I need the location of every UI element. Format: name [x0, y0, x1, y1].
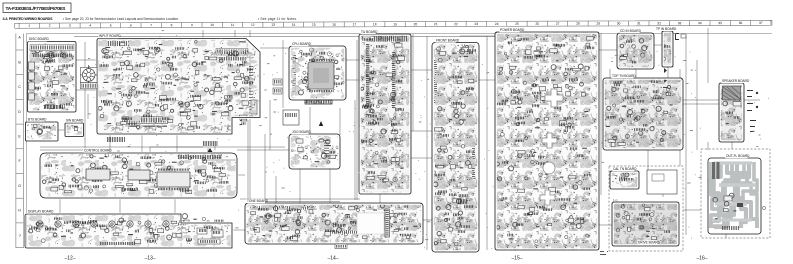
- svg-text:11: 11: [231, 23, 235, 27]
- rotary encoder mounting box: [80, 67, 97, 82]
- svg-text:18: 18: [373, 22, 377, 26]
- IC901 system control on CPU board: [308, 59, 334, 92]
- svg-text:3-3. PRINTED WIRING BOARDS: 3-3. PRINTED WIRING BOARDS: [3, 17, 54, 21]
- board: DISC BOARD: [28, 37, 77, 112]
- svg-text:DISC BOARD: DISC BOARD: [29, 37, 50, 41]
- page fold markers: [64, 256, 707, 262]
- transformer block on SPEAKER board: [723, 86, 741, 100]
- svg-text:DISPLAY BOARD: DISPLAY BOARD: [28, 210, 54, 214]
- svg-text:G: G: [18, 184, 21, 188]
- board: CTRL (CPU) BOARD: [289, 42, 346, 100]
- svg-text:12: 12: [251, 23, 255, 27]
- svg-text:D: D: [18, 110, 21, 114]
- svg-text:19: 19: [393, 22, 397, 26]
- connector columns on TU board: [366, 44, 395, 108]
- board: TOP TN BOARD: [603, 74, 683, 150]
- svg-text:17: 17: [353, 22, 357, 26]
- tall connector on TONE board: [385, 209, 390, 237]
- svg-text:C: C: [18, 85, 21, 89]
- svg-text:TP IN BOARD: TP IN BOARD: [656, 27, 677, 31]
- terminal circle at OUT-FL enclosure: [755, 206, 766, 209]
- svg-text:31: 31: [637, 21, 641, 25]
- dashed enclosure: OUT-FL unit: [701, 149, 770, 238]
- svg-text:OUT-FL BOARD: OUT-FL BOARD: [726, 154, 750, 158]
- component row top of TONE board: [255, 206, 377, 234]
- board: CD IN BOARD: [617, 29, 654, 69]
- svg-text:15: 15: [312, 23, 316, 27]
- svg-text:28: 28: [576, 22, 580, 26]
- arrow marker below CPU board: [319, 121, 323, 126]
- board: TP IN BOARD: [655, 27, 677, 67]
- svg-text:4: 4: [89, 24, 91, 28]
- svg-text:• See page 20, 23 for Semicond: • See page 20, 23 for Semiconductor Lead…: [63, 17, 179, 21]
- svg-text:FRONT BOARD: FRONT BOARD: [436, 39, 460, 43]
- svg-text:7: 7: [150, 23, 152, 27]
- board: INPUT BOARD: [97, 34, 260, 134]
- svg-text:TU BOARD: TU BOARD: [361, 30, 378, 34]
- connector below INPUT board: [107, 137, 125, 142]
- ruler: numbered column grid: [15, 20, 772, 28]
- svg-text:26: 26: [536, 22, 540, 26]
- svg-text:–16–: –16–: [696, 256, 707, 262]
- svg-text:–13–: –13–: [144, 256, 155, 262]
- connector boxes at right of DISPLAY board: [197, 228, 223, 244]
- svg-text:10: 10: [210, 23, 214, 27]
- polarity symbols beside TP IN board: [663, 33, 686, 93]
- svg-text:–15–: –15–: [511, 256, 522, 262]
- IC501 and IC502 on CONTROL board: [86, 155, 221, 190]
- svg-text:27: 27: [556, 22, 560, 26]
- svg-text:SPEAKER BOARD: SPEAKER BOARD: [722, 79, 750, 83]
- connector comb bottom of INPUT board: [123, 117, 168, 124]
- svg-text:–14–: –14–: [327, 256, 338, 262]
- svg-text:2: 2: [49, 24, 51, 28]
- board: BTS BOARD: [26, 117, 59, 141]
- connector plugs left of CPU board: [273, 79, 282, 94]
- board: CAL TN BOARD: [610, 167, 639, 189]
- svg-text:TOP TN BOARD: TOP TN BOARD: [612, 74, 636, 78]
- svg-text:CAL TN BOARD: CAL TN BOARD: [613, 167, 637, 171]
- connector comb bottom of DISC board: [44, 105, 63, 109]
- svg-text:[ • ]: [ • ]: [613, 198, 618, 202]
- svg-text:6: 6: [130, 23, 132, 27]
- dashed enclosure: tuner drive unit: [609, 166, 683, 251]
- pin column left edge of CPU board: [293, 55, 296, 92]
- tick columns on FRONT board edges: [434, 60, 475, 179]
- scale legend box under encoder: [80, 83, 97, 89]
- svg-text:BTS BOARD: BTS BOARD: [28, 118, 47, 122]
- svg-text:CPU BOARD: CPU BOARD: [292, 42, 312, 46]
- svg-text:1: 1: [28, 24, 30, 28]
- svg-text:JOG BOARD: JOG BOARD: [292, 130, 311, 134]
- board: SW BOARD: [65, 118, 84, 136]
- svg-text:CD IN BOARD: CD IN BOARD: [620, 29, 642, 33]
- svg-text:• See page 11 for Notes.: • See page 11 for Notes.: [258, 17, 297, 21]
- svg-text:H: H: [18, 209, 21, 213]
- board: DRIVE BOARD: [612, 202, 679, 246]
- board: TONE BOARD: [245, 199, 423, 244]
- board: FRONT BOARD: [432, 38, 479, 252]
- component column right edge of INPUT board: [249, 66, 257, 116]
- svg-text:CONTROL BOARD: CONTROL BOARD: [84, 149, 112, 153]
- svg-text:25: 25: [515, 22, 519, 26]
- svg-text:22: 22: [454, 22, 458, 26]
- svg-text:36: 36: [739, 21, 743, 25]
- svg-text:16: 16: [332, 23, 336, 27]
- svg-text:3: 3: [69, 24, 71, 28]
- terminal symbols right margin: [747, 90, 758, 132]
- heat sink pads on POWER board: [540, 89, 563, 205]
- svg-text:29: 29: [597, 22, 601, 26]
- connector CN101 pin rows on DISC board: [30, 45, 74, 58]
- symbols below POWER board: [600, 251, 608, 255]
- frame: content border: [26, 34, 772, 249]
- board: CONTROL BOARD: [40, 148, 237, 198]
- svg-text:37: 37: [759, 21, 763, 25]
- svg-text:32: 32: [657, 21, 661, 25]
- tab connector below TONE board: [335, 244, 347, 249]
- board: DISPLAY BOARD: [25, 209, 232, 248]
- svg-text:J: J: [19, 233, 21, 237]
- svg-text:TONE BOARD: TONE BOARD: [247, 199, 269, 203]
- board: OUT-FL BOARD: [708, 154, 761, 234]
- svg-text:20: 20: [414, 22, 418, 26]
- title box: model number: [3, 3, 71, 13]
- row letter strip: [16, 34, 24, 249]
- connector tab on CPU board: [305, 100, 332, 104]
- svg-text:DRIVE BOARD: DRIVE BOARD: [638, 241, 661, 245]
- svg-text:5: 5: [110, 23, 112, 27]
- svg-text:24: 24: [495, 22, 499, 26]
- scan noise specks: [84, 30, 769, 249]
- svg-text:INPUT BOARD: INPUT BOARD: [99, 34, 121, 38]
- connector comb top of TU board: [374, 36, 407, 42]
- wire harness between boards: [40, 30, 760, 250]
- header: section heading and notes: [3, 17, 298, 21]
- board: JOG BOARD: [289, 130, 340, 169]
- tiny text row under connector: [128, 126, 167, 127]
- svg-text:8: 8: [171, 23, 173, 27]
- rotary encoder (volume) symbol: [80, 65, 97, 83]
- board: SPEAKER BOARD: [719, 79, 750, 142]
- svg-text:POWER BOARD: POWER BOARD: [500, 28, 525, 32]
- svg-text:30: 30: [617, 21, 621, 25]
- resistor array on JOG board: [324, 140, 329, 156]
- svg-text:–12–: –12–: [64, 256, 75, 262]
- board: POWER BOARD: [495, 28, 599, 250]
- svg-text:34: 34: [698, 21, 702, 25]
- svg-text:35: 35: [718, 21, 722, 25]
- svg-text:13: 13: [271, 23, 275, 27]
- small module between CPU and TU boards: [283, 110, 299, 125]
- connector comb top-left of INPUT board: [101, 41, 134, 46]
- connector above CONTROL board: [203, 141, 217, 152]
- wire right margin vertical: [707, 28, 709, 150]
- connector boxes left edge of DISC board: [29, 62, 35, 100]
- svg-text:23: 23: [475, 22, 479, 26]
- svg-text:14: 14: [292, 23, 296, 27]
- svg-text:SW BOARD: SW BOARD: [66, 119, 84, 123]
- svg-text:33: 33: [678, 21, 682, 25]
- blank relay area on TONE board: [357, 213, 384, 234]
- connector cluster top-right of INPUT board: [216, 49, 248, 61]
- relay box beside CAL TN board: [647, 170, 677, 194]
- board: TU BOARD: [359, 30, 411, 194]
- svg-text:9: 9: [191, 23, 193, 27]
- lamp sockets on DISPLAY board: [37, 221, 169, 227]
- svg-text:21: 21: [434, 22, 438, 26]
- svg-text:TA-F3303ESL/F770ES/F670ES: TA-F3303ESL/F770ES/F670ES: [6, 6, 67, 12]
